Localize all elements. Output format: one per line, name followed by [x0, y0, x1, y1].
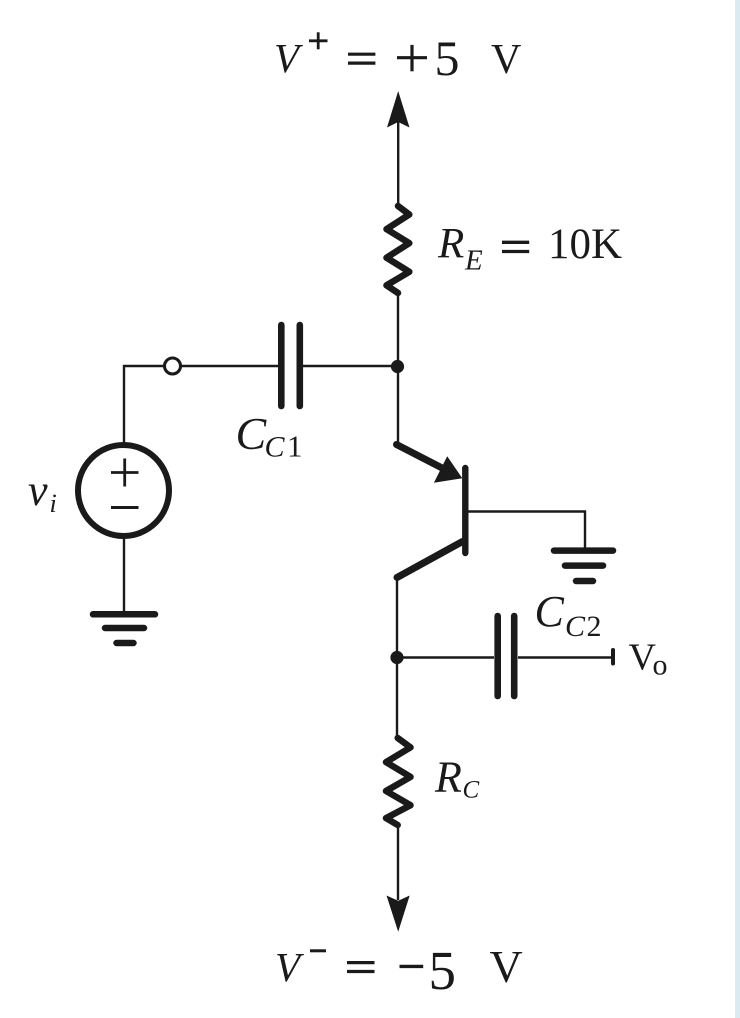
wire node to C_C1 [303, 365, 398, 367]
wire collector to node [396, 577, 398, 658]
svg-text:2: 2 [587, 610, 602, 643]
wire RC to arrow [397, 825, 399, 900]
label C_C2 [535, 587, 602, 643]
wire C_C1 to input terminal [181, 365, 279, 367]
label RC [434, 753, 480, 804]
resistor RC [386, 738, 411, 825]
svg-text:V: V [491, 37, 521, 83]
transistor Q1 collector [397, 542, 463, 578]
input terminal (open circle) [165, 358, 181, 374]
capacitor C_C1 [281, 325, 300, 406]
net V+ label [274, 30, 521, 86]
base lead wire to ground [468, 512, 585, 550]
wire terminal to source [124, 366, 165, 443]
wire node to RC [396, 657, 398, 739]
supply arrow V+ [387, 91, 410, 207]
output terminal tick [611, 650, 615, 664]
capacitor C_C2 [498, 616, 515, 696]
wire node to C_C2 [397, 656, 494, 658]
wire source to ground [123, 535, 125, 613]
label C_C1 [236, 408, 303, 464]
node dot (collector / C_C2 / RC) [390, 651, 403, 664]
node dot (base of RE / C_C1 / emitter) [391, 360, 404, 373]
svg-text:R: R [434, 753, 462, 802]
svg-text:E: E [464, 245, 483, 277]
svg-text:i: i [50, 489, 57, 518]
wire node to transistor emitter [397, 366, 399, 445]
svg-text:v: v [28, 466, 48, 515]
svg-text:V: V [275, 944, 304, 990]
wire C_C2 to output terminal [518, 656, 611, 658]
net V- label [275, 940, 523, 1001]
wire RE to node [397, 293, 399, 366]
svg-text:5: 5 [435, 30, 460, 86]
svg-text:C: C [236, 408, 268, 459]
transistor Q1 emitter with arrow (PNP) [397, 445, 463, 483]
svg-text:o: o [653, 649, 668, 682]
svg-text:1: 1 [287, 429, 303, 464]
label RE = 10K [437, 221, 622, 277]
svg-text:V: V [490, 941, 523, 992]
svg-text:5: 5 [429, 940, 457, 1001]
supply arrow V- [387, 896, 410, 932]
svg-text:V: V [274, 35, 303, 81]
resistor RE [387, 206, 410, 293]
ground (right, at base) [554, 551, 613, 581]
svg-text:C: C [535, 587, 565, 636]
source v_i (circle with + -) [78, 445, 169, 536]
transistor Q1 base bar [462, 468, 468, 553]
svg-text:10K: 10K [548, 221, 622, 268]
svg-text:R: R [437, 221, 464, 268]
svg-text:C: C [463, 777, 480, 804]
label Vo [629, 637, 668, 682]
svg-text:C: C [265, 431, 286, 464]
ground (left, under source) [93, 614, 155, 643]
svg-text:C: C [565, 610, 586, 643]
label v_i [28, 466, 57, 518]
